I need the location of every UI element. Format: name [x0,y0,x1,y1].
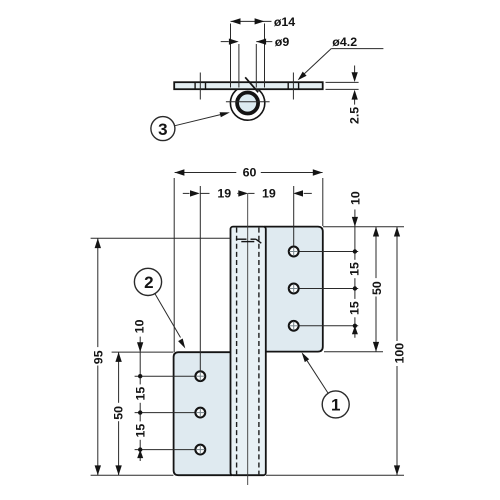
svg-text:3: 3 [158,120,167,139]
svg-text:ø9: ø9 [275,35,290,49]
svg-text:19: 19 [217,187,231,201]
svg-text:95: 95 [91,350,105,364]
svg-text:100: 100 [393,343,407,364]
svg-text:15: 15 [133,424,147,438]
svg-text:60: 60 [243,166,257,180]
svg-text:19: 19 [262,186,276,200]
svg-text:15: 15 [348,301,362,315]
svg-text:ø14: ø14 [274,15,295,29]
svg-text:50: 50 [370,281,384,295]
svg-text:ø4.2: ø4.2 [332,35,357,49]
svg-text:15: 15 [348,262,362,276]
svg-text:10: 10 [348,191,362,205]
svg-text:1: 1 [331,396,340,415]
svg-text:50: 50 [112,406,126,420]
svg-text:10: 10 [133,319,147,333]
svg-text:15: 15 [133,387,147,401]
svg-text:2: 2 [144,273,153,292]
svg-text:2.5: 2.5 [348,107,362,124]
